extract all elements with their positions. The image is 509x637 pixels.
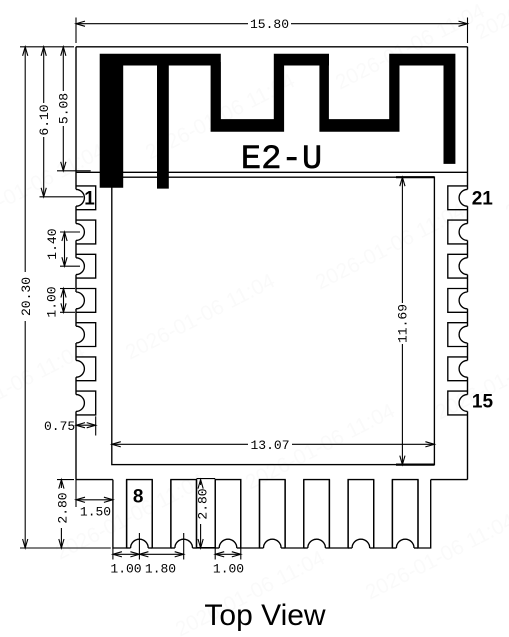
svg-text:1.00: 1.00: [110, 562, 141, 577]
svg-text:2026-01-06 11:04: 2026-01-06 11:04: [362, 509, 509, 604]
svg-text:1: 1: [84, 188, 95, 209]
svg-text:Top View: Top View: [204, 599, 326, 632]
svg-text:2026-01-06 11:04: 2026-01-06 11:04: [52, 469, 209, 564]
svg-text:13.07: 13.07: [250, 438, 289, 453]
svg-text:0.75: 0.75: [44, 419, 75, 434]
svg-text:2026-01-06 11:04: 2026-01-06 11:04: [432, 329, 509, 424]
svg-text:15: 15: [472, 392, 494, 413]
svg-text:20.30: 20.30: [19, 277, 34, 316]
svg-text:2.80: 2.80: [195, 488, 210, 519]
svg-text:8: 8: [133, 486, 144, 507]
svg-text:2026-01-06 11:04: 2026-01-06 11:04: [502, 129, 509, 224]
svg-text:11.69: 11.69: [396, 304, 411, 343]
svg-text:2.80: 2.80: [55, 492, 70, 523]
svg-text:6.10: 6.10: [37, 104, 52, 135]
svg-text:2026-01-06 11:04: 2026-01-06 11:04: [312, 199, 469, 294]
svg-text:5.08: 5.08: [57, 93, 72, 124]
svg-text:1.00: 1.00: [213, 562, 244, 577]
svg-text:2026-01-06 11:04: 2026-01-06 11:04: [122, 269, 279, 364]
svg-text:21: 21: [472, 189, 494, 210]
svg-text:1.00: 1.00: [44, 286, 59, 317]
svg-text:1.80: 1.80: [145, 562, 176, 577]
svg-text:15.80: 15.80: [250, 17, 289, 32]
svg-text:E2-U: E2-U: [241, 141, 323, 179]
svg-text:1.40: 1.40: [45, 228, 60, 259]
svg-text:1.50: 1.50: [80, 505, 111, 520]
